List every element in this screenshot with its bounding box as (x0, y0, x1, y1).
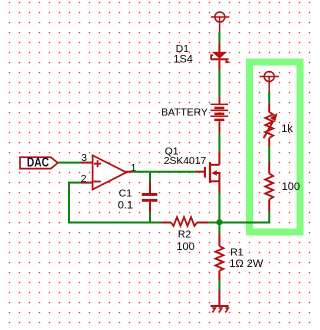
resistor R2 (162, 217, 209, 226)
highlight box (green selection rectangle) (250, 62, 301, 232)
svg-text:3: 3 (81, 153, 87, 164)
transistor Q1 (196, 152, 221, 194)
svg-text:1Ω 2W: 1Ω 2W (229, 258, 264, 270)
label R1 (230, 248, 243, 259)
label 0.1 (118, 199, 133, 211)
potentiometer 1k (264, 104, 278, 147)
resistor R1 (215, 234, 223, 281)
wire feedback vertical (68, 182, 70, 223)
diode D1 (211, 43, 229, 70)
resistor 100 right (265, 162, 273, 212)
svg-text:0.1: 0.1 (118, 199, 133, 211)
op-amp U1 (93, 155, 133, 189)
wire supply to pot (268, 92, 270, 104)
svg-text:DAC: DAC (27, 157, 49, 170)
label D1 (176, 44, 189, 55)
wire battery to Q1 drain (218, 133, 220, 152)
svg-text:1k: 1k (281, 123, 293, 135)
pin number 3 (81, 153, 87, 164)
label R2 (178, 230, 191, 241)
pin number 2 (81, 174, 87, 185)
wire op-amp output to Q1 gate (133, 171, 196, 173)
battery BATTERY (210, 97, 228, 133)
svg-text:R2: R2 (178, 230, 191, 241)
svg-text:2: 2 (81, 174, 87, 185)
label 1k (281, 123, 293, 135)
label BATTERY (161, 108, 208, 119)
wire junction to pot branch (219, 222, 270, 224)
tag DAC (20, 157, 58, 170)
wire R2 to junction (208, 222, 219, 224)
label 1ohm 2W (229, 258, 264, 270)
wire DAC to op-amp pin3 (58, 162, 81, 164)
wire pot to resistor (268, 147, 270, 163)
wire Q1 source to junction (218, 194, 220, 223)
svg-text:R1: R1 (230, 248, 243, 259)
ground (211, 306, 229, 313)
label 100 right (282, 181, 300, 193)
label 100 R2 (176, 241, 194, 253)
power symbol VCC top (211, 12, 229, 32)
wire feedback bottom (68, 222, 162, 224)
label 2SK4017 (164, 156, 207, 167)
svg-text:100: 100 (282, 181, 300, 193)
label Q1 (165, 146, 179, 157)
pin 3 stub (81, 162, 93, 164)
wire R1 to ground (218, 280, 220, 290)
pin 2 stub (81, 182, 93, 184)
junction node (216, 219, 222, 225)
power symbol VCC right (260, 72, 279, 92)
svg-text:2SK4017: 2SK4017 (164, 156, 207, 167)
label 1S4 (173, 54, 192, 66)
wire resistor down to bottom (268, 212, 270, 224)
capacitor C1 (142, 172, 158, 223)
svg-text:1S4: 1S4 (173, 54, 192, 66)
label C1 (119, 188, 132, 199)
wire D1 to battery (218, 70, 220, 97)
wire junction down (218, 223, 220, 234)
wire supply to D1 (218, 32, 220, 44)
svg-text:100: 100 (176, 241, 194, 253)
svg-text:BATTERY: BATTERY (161, 108, 208, 119)
wire feedback pin2 (68, 182, 81, 184)
ground pin (218, 290, 220, 306)
svg-text:C1: C1 (119, 188, 132, 199)
pin number 1 (131, 163, 137, 174)
